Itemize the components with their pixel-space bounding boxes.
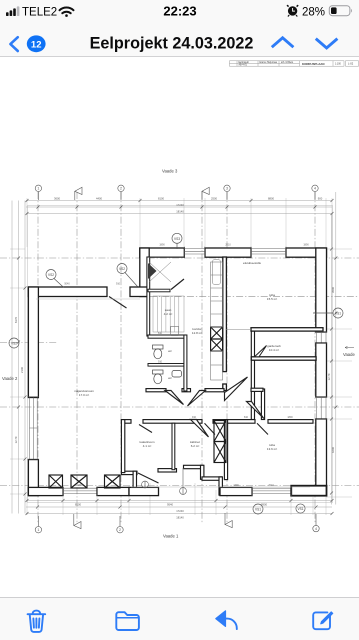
svg-text:3600: 3600 [54, 196, 60, 200]
exterior wall bottom segment b [97, 487, 129, 495]
svg-text:18140: 18140 [176, 516, 184, 520]
dimension text top row [54, 196, 323, 213]
wc top wall [148, 335, 185, 338]
window bottom-right gap [252, 488, 292, 493]
extension lines top [10, 198, 352, 515]
left dimension column lines [12, 201, 25, 514]
door wedge garderoob [247, 402, 264, 419]
title block tiny texts [239, 61, 354, 67]
small circle porch left [142, 481, 149, 488]
reply arrow icon [216, 611, 237, 629]
corridor north wall west [146, 389, 166, 392]
window right upper [317, 332, 327, 343]
svg-text:810: 810 [158, 332, 163, 335]
door swing bottom room a [139, 425, 152, 433]
svg-text:5040: 5040 [64, 283, 70, 286]
svg-text:L-02: L-02 [348, 62, 354, 66]
room label koridor [192, 327, 202, 335]
axis grid line 1 [37, 192, 39, 524]
wc rooms right wall [184, 335, 187, 391]
svg-text:910: 910 [158, 361, 163, 364]
right dimension column lines [332, 192, 336, 505]
svg-text:2100: 2100 [20, 367, 24, 373]
window left wall [30, 398, 38, 460]
room label tualettruum [139, 440, 155, 448]
horizontal axis stub kitchen [150, 296, 359, 298]
exterior wall top segment b [205, 248, 251, 257]
svg-text:8100: 8100 [158, 196, 164, 200]
bottom toolbar [0, 597, 359, 640]
garage north wall west [28, 287, 107, 297]
svg-text:910: 910 [116, 283, 121, 286]
exterior wall right upper [316, 248, 327, 332]
unread badge 12 [27, 35, 46, 52]
kitchen counter upper [211, 262, 223, 327]
door wedge living room [225, 377, 248, 401]
svg-text:VS1: VS1 [255, 508, 261, 512]
utility shaft b [71, 475, 87, 488]
axis grid line A [76, 192, 78, 524]
svg-text:1390: 1390 [233, 484, 239, 487]
svg-text:13.6 m²: 13.6 m² [267, 447, 277, 451]
exterior wall right lower [316, 419, 327, 487]
svg-text:4: 4 [315, 527, 317, 531]
bottom axis marker 1 [35, 516, 41, 533]
svg-text:2010: 2010 [225, 244, 231, 247]
svg-text:17240: 17240 [176, 203, 184, 207]
room label tuba lower right [267, 443, 277, 451]
trash icon [28, 611, 46, 632]
utility shaft a [49, 475, 63, 488]
bottom dimension line row 2 [26, 506, 332, 508]
bottom axis marker B flag [225, 513, 232, 528]
dimension ticks right [330, 248, 337, 495]
dimension ticks bottom [26, 499, 334, 515]
svg-text:Eelprojekt: Eelprojekt [239, 61, 250, 64]
alarm clock icon [287, 5, 298, 16]
kitchen shaft b [211, 339, 223, 351]
svg-text:2010: 2010 [268, 484, 274, 487]
entry north wall a [158, 469, 177, 472]
svg-text:12.70: 12.70 [327, 373, 331, 380]
svg-text:1890: 1890 [287, 416, 293, 419]
svg-text:VS2: VS2 [48, 273, 54, 277]
sauna lower wall [148, 289, 170, 292]
window right lower [317, 397, 327, 419]
window top gap b [251, 249, 286, 254]
bottom axis marker A flag [74, 514, 81, 529]
top axis marker 1 [35, 185, 41, 200]
corridor east wall [261, 389, 264, 420]
svg-text:8800: 8800 [268, 196, 274, 200]
vent shaft upper [214, 421, 226, 442]
kitchen fridge inner [212, 260, 220, 285]
svg-text:2: 2 [120, 187, 122, 191]
bottom dimension line row 3 [26, 513, 332, 515]
toilet wc2 [153, 370, 164, 384]
axis grid line B [201, 192, 203, 524]
door wedge corridor west [188, 391, 206, 407]
room label kook [243, 261, 261, 265]
door wedge wc exit [165, 391, 184, 405]
wall micro dimension texts [64, 244, 309, 487]
top axis marker 4 [312, 185, 318, 200]
svg-text:1890: 1890 [159, 244, 165, 247]
wifi icon [60, 8, 74, 17]
top dimension line row 1 [26, 200, 332, 202]
svg-text:8900: 8900 [261, 503, 267, 507]
top axis marker 3 [224, 185, 230, 200]
wc partition wall [148, 364, 185, 367]
svg-text:8100: 8100 [75, 503, 81, 507]
tualettruum south wall [121, 471, 137, 474]
svg-text:18140: 18140 [176, 209, 184, 213]
leader circle VS1 bottom [253, 504, 263, 514]
axis grid line 2 [120, 192, 122, 524]
svg-text:12.70: 12.70 [14, 436, 18, 443]
top dimension line row 3 [26, 213, 332, 215]
svg-text:4200: 4200 [331, 447, 335, 453]
wardrobe shelving [153, 296, 184, 332]
exterior wall left upper [28, 287, 38, 398]
room label vahekoridor [190, 440, 200, 448]
axis grid line 3 [226, 192, 228, 524]
svg-text:KORRUSPLAAN: KORRUSPLAAN [302, 62, 324, 66]
axis grid line 4 [314, 192, 316, 524]
dimension frame lines [12, 192, 336, 514]
svg-text:1: 1 [37, 187, 39, 191]
entry east wall lower [219, 477, 222, 495]
door swing bottom room b [205, 423, 216, 434]
window top gap a [184, 249, 205, 254]
svg-text:Vaade 3: Vaade 3 [162, 169, 178, 174]
garage north wall east [130, 287, 149, 297]
svg-text:6.2 m²: 6.2 m² [191, 444, 200, 448]
bottom dimension line row 1 [26, 500, 332, 502]
svg-text:2500: 2500 [211, 196, 217, 200]
svg-text:4.1 m²: 4.1 m² [143, 444, 152, 448]
svg-text:15.5 m²: 15.5 m² [267, 297, 277, 301]
svg-text:wc: wc [168, 349, 172, 353]
room label saun [164, 308, 173, 316]
svg-text:Vaade: Vaade [343, 352, 355, 357]
status + nav bar background [0, 0, 359, 57]
leader circle VS1 right [313, 308, 343, 318]
svg-text:1890: 1890 [77, 484, 83, 487]
svg-text:810: 810 [244, 416, 249, 419]
vent shaft lower [214, 442, 226, 463]
back chevron [10, 37, 17, 51]
sauna door swing [171, 279, 184, 290]
inner face line hall top [149, 256, 184, 258]
pier bottom-right corner [291, 486, 326, 496]
top axis marker B flag [202, 187, 209, 200]
svg-text:AB-4-01: AB-4-01 [239, 64, 248, 67]
bottom wall porch-left [129, 487, 159, 495]
porch west wall [133, 471, 136, 494]
svg-text:VS2: VS2 [11, 342, 17, 346]
interior wall bottom rooms left [121, 420, 124, 473]
svg-text:17.0 m²: 17.0 m² [79, 393, 89, 397]
bottom axis marker 4 [313, 514, 319, 532]
sauna corner bench [148, 263, 157, 279]
bottom axis marker 2 [117, 516, 123, 533]
svg-text:1890: 1890 [303, 244, 309, 247]
svg-text:9540: 9540 [167, 503, 173, 507]
leader circle VS2 left [9, 338, 19, 348]
exterior wall top segment a [140, 248, 185, 257]
horizontal axis line C [0, 257, 359, 259]
horizontal axis stub left [0, 342, 58, 344]
porch door swing [138, 473, 159, 483]
chevron down [316, 39, 338, 48]
svg-text:Vaade 2: Vaade 2 [2, 376, 18, 381]
kitchen counter lower [211, 351, 223, 380]
top axis marker 2 [118, 185, 124, 200]
interior wall below living room [251, 328, 323, 331]
svg-text:4.2 m²: 4.2 m² [164, 312, 173, 316]
dimension ticks top [26, 199, 334, 215]
interior wall central vertical [223, 257, 227, 372]
entry east wall upper [201, 465, 204, 479]
entry north wall b [184, 465, 204, 468]
horizontal axis line E [0, 485, 359, 487]
room label garderoob [267, 344, 281, 352]
svg-text:Vaade 1: Vaade 1 [163, 534, 179, 539]
svg-text:3500: 3500 [331, 287, 335, 293]
svg-text:4400: 4400 [96, 196, 102, 200]
battery icon [329, 6, 352, 16]
dimension ticks left [17, 257, 27, 496]
svg-text:17240: 17240 [176, 509, 184, 513]
status bar icons svg [0, 0, 359, 28]
exterior wall top segment c [286, 248, 327, 257]
exterior wall bottom-right segment [220, 487, 252, 495]
utility shaft c [105, 475, 121, 488]
top dimension line row 2 [26, 206, 332, 208]
entry centre post line [182, 468, 184, 488]
compose icon [313, 612, 333, 629]
dimension text left column [14, 317, 24, 444]
room label majandusruum [74, 389, 94, 397]
opening line living room [226, 328, 251, 330]
garderoob west wall [251, 331, 254, 420]
svg-text:2: 2 [119, 528, 121, 532]
washbasin wc2 [172, 371, 182, 378]
bottom-right room west wall [224, 420, 227, 480]
exterior wall bottom-left segment [28, 487, 63, 495]
navigation bar svg [0, 28, 359, 57]
dimension text bottom row [75, 503, 267, 520]
svg-text:wc: wc [168, 376, 172, 380]
folder icon [116, 612, 139, 630]
toilet wc1 [153, 345, 164, 359]
svg-text:arh. M.Mets: arh. M.Mets [281, 61, 294, 64]
view label right arrow [345, 346, 354, 348]
interior wall bottom rooms top [121, 420, 131, 424]
sheet title block strip [230, 61, 359, 66]
exterior wall left lower [28, 460, 38, 496]
leader circle VS2 mid [117, 264, 138, 287]
door swing bottom room c [257, 423, 268, 434]
dimension text right column [327, 287, 335, 453]
svg-text:900: 900 [318, 196, 323, 200]
partition between small rooms [172, 423, 175, 470]
small circle porch right [180, 488, 187, 495]
leader circle VS3 top [172, 233, 182, 249]
door wedge garderoob south [255, 346, 267, 357]
garage door swing [109, 297, 127, 309]
chevron up [272, 38, 294, 47]
svg-text:6170: 6170 [14, 317, 18, 323]
entry step wall [202, 477, 222, 480]
svg-text:VS1: VS1 [335, 312, 341, 316]
interior face guide lines [36, 299, 310, 487]
window bottom gap a [63, 488, 97, 493]
svg-text:1: 1 [37, 528, 39, 532]
svg-text:910: 910 [192, 416, 197, 419]
horizontal axis line D [0, 406, 359, 408]
kitchen shaft a [211, 327, 223, 339]
svg-text:3: 3 [226, 187, 228, 191]
svg-text:10.4 m²: 10.4 m² [269, 348, 279, 352]
svg-text:4: 4 [314, 187, 316, 191]
room label tuba upper right [267, 293, 277, 301]
leader circle VS2 upper [46, 270, 64, 288]
exterior wall right middle [316, 343, 327, 397]
corridor north wall east [251, 388, 263, 391]
svg-text:Eramu Harjumaa: Eramu Harjumaa [260, 61, 278, 64]
exterior wall middle-left vertical [140, 248, 149, 297]
hall cabinet square [171, 327, 179, 336]
top axis marker A flag [75, 187, 82, 200]
interior wall hall left [147, 257, 150, 336]
garderoob south wall [251, 357, 316, 360]
eaves outline [28, 206, 333, 503]
door wedge kabinet [191, 420, 209, 438]
cellular signal bars [6, 6, 19, 16]
svg-text:12.8 m²: 12.8 m² [192, 331, 202, 335]
svg-text:1:100: 1:100 [335, 64, 341, 66]
window jamb ticks [28, 247, 328, 496]
svg-text:VS3: VS3 [174, 237, 180, 241]
leader circle VS1 bottom-right [296, 504, 305, 513]
svg-text:VS1: VS1 [297, 507, 303, 511]
svg-text:elutuba+köök: elutuba+köök [243, 261, 261, 265]
sauna bench diagonals [149, 262, 171, 282]
svg-text:VS2: VS2 [119, 267, 125, 271]
